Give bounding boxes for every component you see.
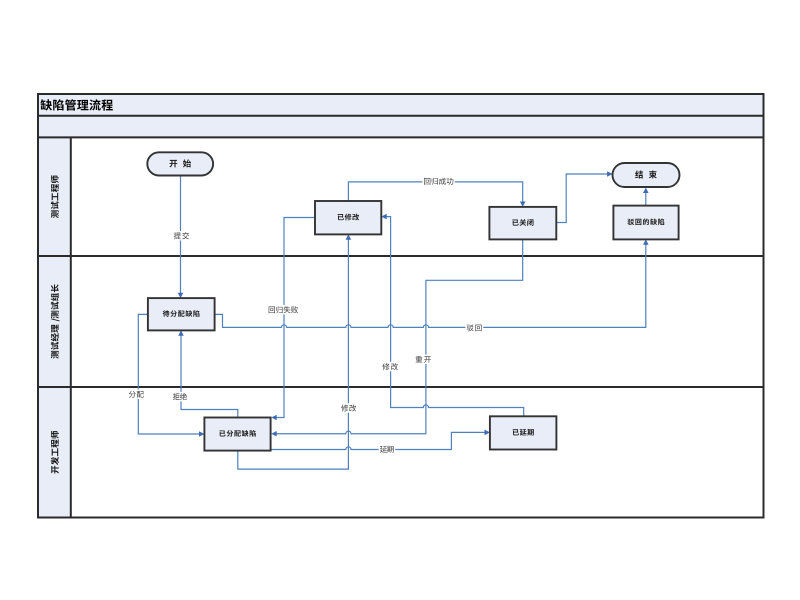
frame grid lines [38, 94, 764, 518]
connector 修改: 已延期 to 已修改 [385, 217, 523, 417]
arrowhead into 驳回的缺陷 bottom [643, 239, 649, 244]
connector 延期: 已分配缺陷 to 已延期 [271, 432, 486, 449]
arrowhead into 已延期 left [485, 430, 490, 436]
arrowhead into 已分配缺陷 right [271, 431, 276, 437]
arrowhead into 已修改 bottom [346, 234, 352, 239]
end node 结束 [613, 163, 680, 187]
arrowhead into 待分配缺陷 bottom [178, 330, 184, 335]
label 回归成功 [422, 176, 454, 186]
arrowhead into 结束 bottom [643, 188, 649, 193]
arrowhead into 已关闭 top [520, 202, 526, 207]
arrowhead into 待分配缺陷 top [178, 293, 184, 298]
arrowhead into 已分配缺陷 left [199, 431, 204, 437]
lane label 测试经理/测试组长 [51, 284, 60, 358]
state box 驳回的缺陷 [613, 206, 678, 240]
arrowhead into 已修改 right [381, 214, 386, 220]
label 重开 [414, 355, 432, 365]
connector 回归失败: 已修改 to 已分配缺陷 [275, 218, 315, 418]
state box 已修改 [315, 201, 381, 234]
state box 已分配缺陷 [204, 418, 270, 451]
phase band row [38, 116, 764, 138]
connector 分配: 待分配缺陷 to 已分配缺陷 [138, 314, 200, 434]
label 回归失败 [267, 305, 299, 315]
connector 修改: 已分配缺陷 to 已修改 [238, 238, 349, 469]
connector 拒绝: 已分配缺陷 to 待分配缺陷 [181, 334, 238, 417]
state box 已延期 [490, 416, 557, 449]
label 提交 [173, 231, 191, 241]
connector: 已关闭 to 结束 [556, 174, 608, 223]
arrowhead into 结束 left [607, 171, 612, 177]
label 延期 [379, 444, 396, 454]
title bar 缺陷管理流程 [38, 94, 764, 116]
connector 重开: 已关闭 to 已分配缺陷 [275, 239, 522, 433]
connector 回归成功: 已修改 to 已关闭 [348, 182, 522, 203]
state box 已关闭 [489, 207, 556, 240]
connector: 驳回的缺陷 to 结束 [645, 191, 647, 206]
label 分配 [127, 389, 145, 399]
state box 待分配缺陷 [148, 298, 215, 330]
arrowhead into 已分配缺陷 top-right corner [271, 415, 276, 421]
lane label 开发工程师 [51, 431, 59, 474]
swimlane label column [38, 137, 71, 517]
label 修改 on 已延期 line [381, 362, 399, 372]
start node 开始 [147, 152, 213, 175]
label 驳回 [465, 323, 483, 333]
lane label 测试工程师 [51, 175, 59, 218]
connector 提交: 开始 to 待分配缺陷 [180, 175, 182, 294]
label 拒绝 [172, 392, 189, 402]
connector 驳回: 待分配缺陷 to 驳回的缺陷 [215, 243, 646, 327]
label 修改 on 已分配缺陷 line [340, 403, 358, 413]
